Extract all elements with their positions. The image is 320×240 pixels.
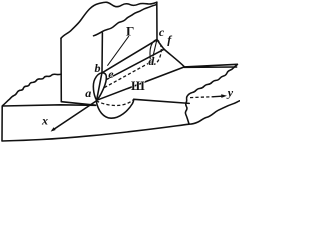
svg-text:x: x	[41, 114, 48, 128]
svg-text:d: d	[148, 54, 155, 68]
svg-text:Ш: Ш	[131, 79, 145, 93]
svg-text:b: b	[95, 61, 101, 75]
svg-text:a: a	[85, 86, 91, 100]
svg-text:y: y	[226, 85, 234, 99]
svg-text:e: e	[108, 67, 114, 81]
svg-text:Γ: Γ	[126, 24, 134, 39]
svg-text:c: c	[159, 25, 165, 39]
svg-text:f: f	[167, 33, 172, 47]
